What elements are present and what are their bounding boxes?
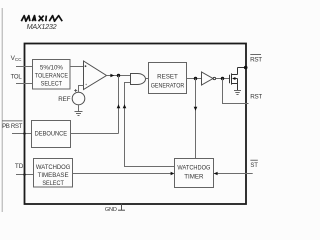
- DEBOUNCE box: [32, 121, 71, 148]
- svg-text:REF: REF: [58, 96, 71, 103]
- AND gate U3: [131, 74, 146, 85]
- pin wire TOL: [16, 83, 33, 85]
- arrow left into watchdog timer: [214, 172, 218, 176]
- svg-text:TIMER: TIMER: [184, 174, 204, 181]
- ground (MOSFET source): [234, 91, 241, 95]
- plus sign on REF: [74, 89, 77, 92]
- svg-text:MAX1232: MAX1232: [27, 22, 57, 31]
- node mosfet gate junction: [221, 77, 224, 80]
- node drain / RST pin: [244, 66, 248, 70]
- arrow up on debounce line: [117, 104, 121, 108]
- mosfet body arrow: [232, 77, 235, 80]
- wire ST pin to watchdog timer: [214, 173, 253, 175]
- wire gate to reset generator: [145, 78, 148, 80]
- svg-text:ST: ST: [250, 163, 258, 169]
- arrow down on watchdog reset line: [194, 107, 198, 111]
- wire junction down to RST pin: [223, 79, 249, 104]
- RESET GENERATOR box: [149, 63, 187, 94]
- 5%/10% TOLERANCE SELECT box: [33, 60, 71, 90]
- svg-text:RST: RST: [250, 93, 262, 100]
- wire watchdog to gate vertical: [125, 83, 175, 167]
- arrow right on comparator output: [110, 74, 114, 78]
- svg-text:VCC: VCC: [11, 55, 23, 62]
- WATCHDOG TIMEBASE SELECT box: [34, 159, 73, 188]
- IC outer box: [25, 44, 247, 205]
- svg-text:TIMEBASE: TIMEBASE: [38, 172, 69, 179]
- wire buffer to mosfet gate: [216, 78, 230, 80]
- svg-text:TOL: TOL: [11, 75, 23, 81]
- WATCHDOG TIMER box: [175, 159, 214, 188]
- svg-text:SELECT: SELECT: [42, 180, 64, 187]
- arrow up on watchdog line: [123, 104, 127, 108]
- node reset output junction: [194, 77, 197, 80]
- wire junction down to watchdog timer: [195, 79, 197, 159]
- GND pin symbol: [121, 204, 123, 210]
- buffer output bubble: [213, 77, 215, 79]
- wire REF to comparator: [79, 86, 84, 93]
- svg-text:TOLERANCE: TOLERANCE: [35, 72, 68, 79]
- page edge artifact: [1, 8, 3, 212]
- REF source circle: [72, 92, 85, 105]
- wire reset generator output: [187, 78, 202, 80]
- comparator U1: [84, 61, 107, 90]
- svg-text:DEBOUNCE: DEBOUNCE: [35, 130, 68, 137]
- wire debounce output up: [118, 76, 120, 134]
- ground (REF): [75, 112, 83, 116]
- MAXIM logo: [21, 16, 62, 22]
- pin wire TD: [16, 174, 34, 176]
- svg-text:RST: RST: [250, 57, 262, 64]
- pin wire PB RST: [12, 133, 32, 135]
- node comparator/debounce junction: [117, 74, 120, 77]
- svg-text:TD: TD: [15, 163, 24, 170]
- svg-text:GENERATOR: GENERATOR: [151, 83, 185, 90]
- transistor Q1 (N-channel MOSFET): [230, 68, 246, 91]
- wire comparator output: [107, 75, 131, 77]
- svg-text:WATCHDOG: WATCHDOG: [36, 164, 71, 171]
- wire debounce to vertical: [71, 133, 119, 135]
- wire tolerance box to comparator: [70, 66, 84, 68]
- svg-text:WATCHDOG: WATCHDOG: [177, 165, 210, 172]
- svg-text:PB RST: PB RST: [2, 123, 23, 130]
- wire timebase select to watchdog timer: [73, 173, 172, 175]
- inverter U2: [202, 72, 214, 85]
- svg-text:5%/10%: 5%/10%: [40, 64, 64, 71]
- svg-text:SELECT: SELECT: [41, 80, 63, 87]
- svg-text:RESET: RESET: [157, 74, 178, 81]
- svg-text:GND: GND: [105, 207, 117, 213]
- pin wire VCC: [16, 66, 33, 68]
- arrow right into watchdog timer: [171, 172, 175, 176]
- wire REF to ground: [78, 105, 80, 112]
